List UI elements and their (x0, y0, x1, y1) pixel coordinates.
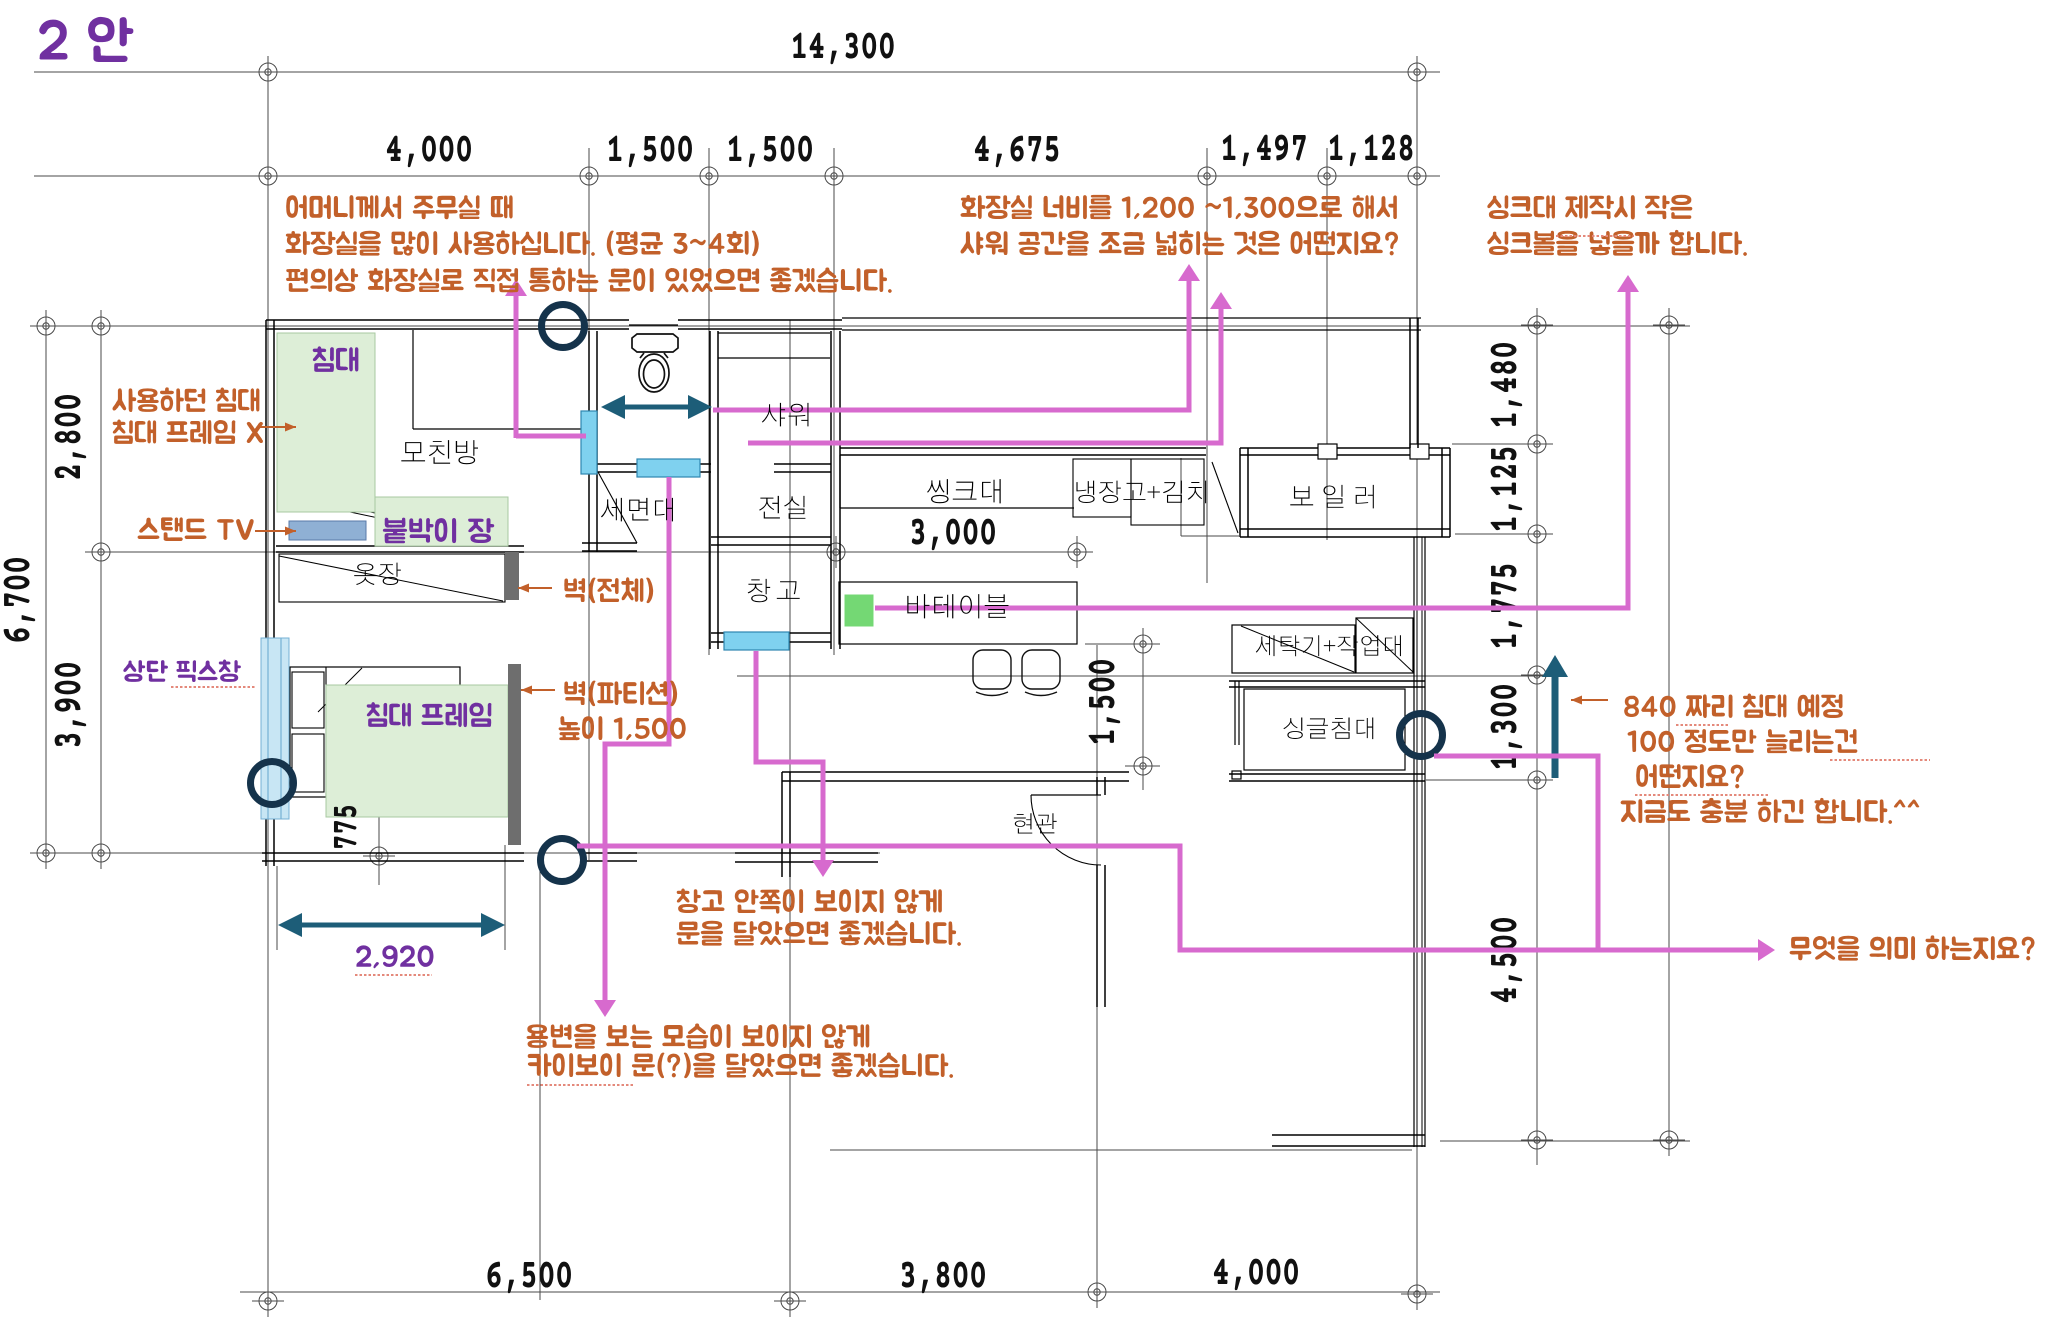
chairs (973, 650, 1011, 689)
navy highlight circles and teal arrows (542, 305, 585, 348)
bed frame furniture (290, 667, 460, 797)
light blue windows and doors (581, 411, 597, 474)
room name labels (401, 440, 478, 464)
gray wall (full) (505, 552, 519, 600)
purple labels (39, 17, 133, 62)
toilet fixture (632, 334, 678, 392)
gray wall (partition) (508, 664, 521, 845)
wardrobe band (279, 554, 505, 602)
right wing walls and furniture (1413, 537, 1415, 1147)
stand TV (289, 521, 366, 540)
outer and interior walls (265, 320, 267, 866)
orange handwritten annotations (286, 195, 512, 219)
kitchen and boiler walls (840, 447, 1206, 449)
closet in mother room (412, 330, 414, 429)
bar table (839, 582, 1077, 644)
bathroom walls (588, 331, 590, 552)
grid crosshair markers (252, 56, 284, 88)
green bed overlays (277, 333, 375, 512)
magenta annotation leader lines (514, 296, 519, 438)
construction grid lines (267, 58, 269, 1300)
dimension labels (793, 33, 894, 65)
living room wall and entrance door (782, 771, 1129, 773)
